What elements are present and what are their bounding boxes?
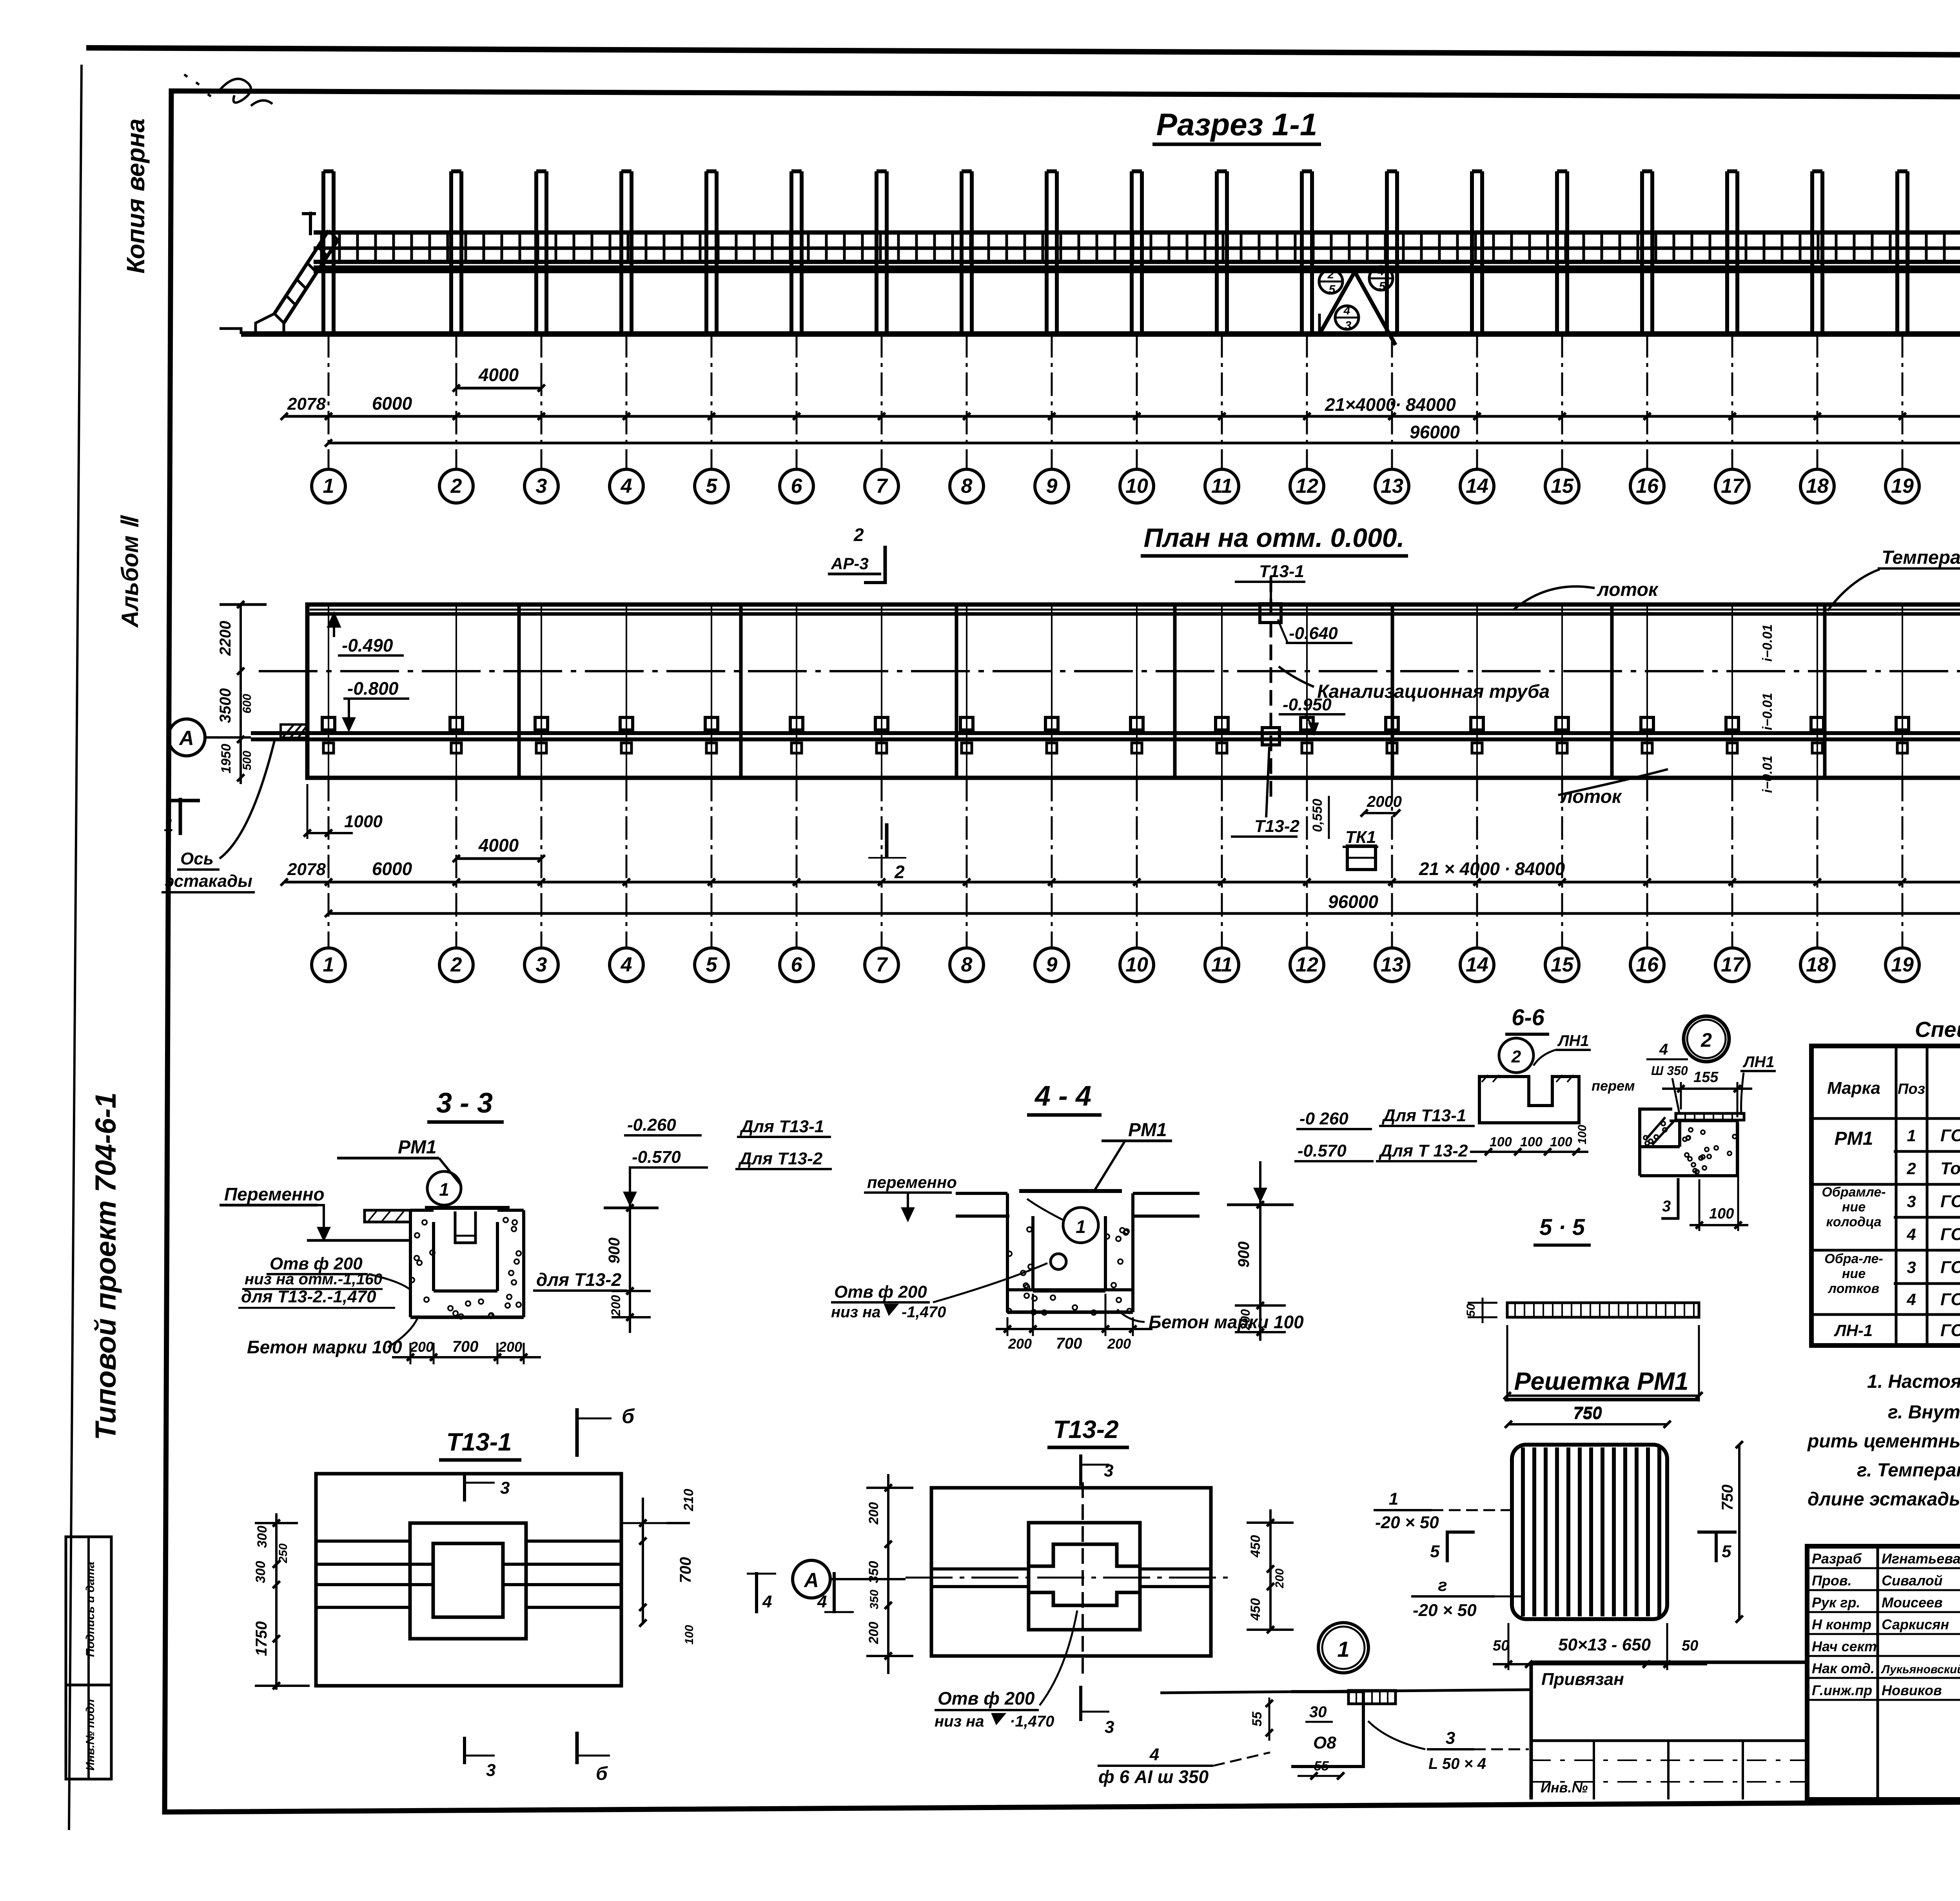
svg-text:5: 5 [706,475,718,497]
svg-text:700: 700 [677,1557,694,1583]
svg-text:96000: 96000 [1328,891,1378,912]
detail 4-4 drain hole [1051,1254,1066,1269]
svg-text:3: 3 [486,1761,495,1780]
svg-text:17: 17 [1721,953,1744,976]
svg-text:Для Т13-2: Для Т13-2 [738,1149,823,1168]
svg-text:4: 4 [621,953,632,976]
svg-text:Т13-1: Т13-1 [1259,562,1304,581]
section mark 4 left [755,1572,758,1613]
elevation dim 4000 axes 2-3 [456,387,541,390]
svg-text:18: 18 [1806,953,1829,976]
svg-text:4: 4 [621,475,632,497]
svg-text:Привязан: Привязан [1541,1670,1624,1689]
detail T13-2 well box [1029,1523,1140,1630]
svg-text:350: 350 [866,1561,881,1583]
svg-text:16: 16 [1636,475,1659,497]
svg-text:10: 10 [1125,475,1148,497]
brace label circle 4/5 [1369,267,1393,290]
svg-text:лотков: лотков [1828,1281,1879,1296]
detail 6-6 position circle 2 [1499,1038,1534,1073]
svg-text:низ на отм.-1,160: низ на отм.-1,160 [245,1271,382,1288]
detail T13-2 stepped inner box [1029,1544,1140,1605]
svg-text:3500: 3500 [217,688,234,723]
svg-text:Моисеев: Моисеев [1882,1594,1943,1610]
svg-text:эстакады: эстакады [165,872,252,891]
svg-text:50×13 - 650: 50×13 - 650 [1558,1635,1651,1654]
elevation columns (24) [321,171,325,334]
svg-text:переменно: переменно [867,1173,957,1191]
grating section mark 5 left [1446,1531,1449,1562]
position circle 2 (corner) [1684,1016,1729,1062]
svg-text:2000: 2000 [1367,793,1402,810]
svg-text:ние: ние [1842,1266,1866,1281]
svg-text:Т13-2: Т13-2 [1254,817,1299,836]
svg-text:Инв.№: Инв.№ [1541,1779,1588,1796]
svg-text:5: 5 [1722,1542,1731,1561]
grating dim 750 top [1508,1423,1667,1425]
detail 6-6 channel section [1479,1077,1579,1123]
svg-text:200: 200 [1273,1569,1286,1589]
svg-text:Копия верна: Копия верна [122,118,150,274]
svg-text:для Т13-2: для Т13-2 [536,1269,622,1290]
svg-text:3: 3 [1907,1258,1916,1276]
svg-text:900: 900 [1235,1242,1252,1268]
brace label circle 2/5 [1319,270,1343,293]
svg-text:200: 200 [609,1295,623,1316]
left stair foot block [256,314,284,334]
svg-text:г. Температурные швы устра: г. Температурные швы устраивать через 10… [1857,1460,1960,1481]
svg-text:Игнатьева: Игнатьева [1882,1551,1960,1567]
plan overall dimension line 96000 [328,912,1960,915]
detail 3-3 ground line [307,1239,410,1242]
svg-text:0,550: 0,550 [1310,799,1325,832]
svg-text:21×4000∙ 84000: 21×4000∙ 84000 [1325,394,1456,415]
svg-text:8: 8 [961,953,973,976]
svg-text:50: 50 [1682,1638,1698,1654]
detail T13-1 outer rectangle [316,1474,621,1686]
svg-text:б: б [596,1763,608,1784]
title block left extension [1531,1661,1807,1664]
svg-text:700: 700 [1056,1335,1082,1352]
svg-text:155: 155 [1693,1069,1719,1086]
svg-text:14: 14 [1466,475,1488,497]
plan centre double line [251,731,1960,735]
detail 4-4 concrete speckles [1007,1227,1132,1315]
level label -0.490 left [328,614,339,637]
svg-text:2: 2 [853,525,864,545]
plan main dimension line [284,881,1960,884]
svg-text:ТК1: ТК1 [1345,828,1376,847]
detail 4-4 grate bar [1019,1189,1122,1193]
svg-text:Отв ф 200: Отв ф 200 [834,1282,927,1302]
svg-text:2: 2 [1327,268,1334,281]
svg-text:-20 × 50: -20 × 50 [1413,1601,1477,1620]
svg-text:200: 200 [866,1622,881,1645]
svg-text:1950: 1950 [219,744,234,773]
dim 0.550 TK1 vertical [1328,796,1330,839]
detail T13-1 section mark 3 bottom [463,1737,466,1764]
section mark 2 bottom [885,823,889,859]
svg-text:50: 50 [1493,1638,1509,1654]
plan band outline [307,605,1960,778]
svg-text:низ на: низ на [831,1304,881,1321]
detail T13-2 channel lines [931,1567,1029,1571]
svg-text:ф 6 АІ ш 350: ф 6 АІ ш 350 [1098,1767,1209,1787]
svg-text:12: 12 [1296,475,1318,497]
svg-text:-0.490: -0.490 [342,635,393,655]
svg-text:6000: 6000 [372,859,412,879]
elevation deck band [314,231,1960,235]
plan footing squares [322,717,335,730]
svg-text:3 - 3: 3 - 3 [436,1088,493,1119]
svg-text:19: 19 [1891,475,1914,497]
svg-text:3: 3 [1104,1461,1113,1480]
svg-text:Новиков: Новиков [1882,1682,1942,1698]
svg-text:Канализационная труба: Канализационная труба [1317,681,1550,702]
svg-text:4: 4 [1343,304,1350,317]
svg-text:7: 7 [876,475,888,497]
brace label circle 4/3 [1335,306,1359,329]
svg-text:210: 210 [681,1489,696,1512]
svg-text:для Т13-2.-1,470: для Т13-2.-1,470 [241,1287,376,1306]
svg-text:9: 9 [1046,953,1058,976]
svg-text:4000: 4000 [478,365,519,385]
svg-text:Лукьяновский: Лукьяновский [1881,1663,1960,1676]
detail 6-6 top hatch [1482,1075,1573,1082]
detail T13-1 well box [410,1523,526,1639]
svg-text:2200: 2200 [217,621,234,656]
svg-text:3: 3 [1345,319,1352,332]
svg-text:3: 3 [1446,1729,1455,1748]
svg-text:7: 7 [876,953,888,976]
svg-text:Разрез 1-1: Разрез 1-1 [1156,107,1318,142]
section mark б top [575,1408,579,1457]
node detail grate bar [1348,1690,1396,1704]
svg-text:18: 18 [1806,475,1829,497]
detail 3-3 right dim chain 900/200 [629,1196,631,1333]
svg-text:АР-3: АР-3 [831,554,869,573]
position circle 1 (grating) [1318,1623,1368,1673]
svg-text:Для Т13-1: Для Т13-1 [739,1117,824,1136]
svg-text:Поз: Поз [1898,1081,1925,1097]
svg-text:б: б [622,1405,635,1428]
plan axis verticals across band [328,605,1960,778]
svg-text:лоток: лоток [1560,786,1622,807]
svg-text:i−0.01: i−0.01 [1760,755,1775,793]
svg-text:Т13-1: Т13-1 [446,1428,512,1456]
node detail dim 55 bottom [1298,1775,1341,1777]
svg-text:1: 1 [1076,1216,1086,1237]
section mark 4 right [833,1572,836,1613]
svg-text:Типовой проект 704-6-1: Типовой проект 704-6-1 [89,1092,122,1440]
plan left dimension chain [240,605,242,784]
svg-text:ние: ние [1842,1200,1866,1215]
svg-text:Бетон марки 100: Бетон марки 100 [1149,1312,1304,1332]
left access stair [274,231,328,314]
svg-text:1: 1 [1389,1489,1398,1509]
svg-text:План на отм. 0.000.: План на отм. 0.000. [1143,523,1404,553]
svg-text:200: 200 [410,1339,434,1355]
svg-text:16: 16 [1636,953,1659,976]
svg-text:ГОСТ 2590-71*: ГОСТ 2590-71* [1940,1225,1960,1244]
svg-text:500: 500 [241,751,254,770]
detail 5-5 bar [1507,1303,1699,1317]
svg-text:30: 30 [1309,1703,1327,1721]
svg-text:3: 3 [1105,1718,1114,1737]
svg-text:А: А [178,727,194,750]
svg-text:4: 4 [817,1592,827,1611]
grating bottom dims [1493,1663,1707,1665]
svg-text:21 × 4000 ∙ 84000: 21 × 4000 ∙ 84000 [1419,859,1565,879]
svg-text:-0 260: -0 260 [1299,1109,1348,1128]
corner unit grate bar [1676,1113,1744,1120]
svg-text:ГОСТ 8706-58: ГОСТ 8706-58 [1940,1321,1960,1340]
svg-text:450: 450 [1248,1598,1263,1621]
svg-text:4: 4 [762,1592,772,1611]
svg-text:1000: 1000 [344,812,383,831]
svg-text:i−0.01: i−0.01 [1760,693,1775,730]
svg-text:Т13-2: Т13-2 [1053,1415,1118,1443]
svg-text:1: 1 [439,1179,449,1200]
svg-text:10: 10 [1125,953,1148,976]
svg-text:4: 4 [1659,1041,1668,1058]
svg-text:17: 17 [1721,475,1744,497]
svg-text:3: 3 [536,953,547,976]
svg-text:2078: 2078 [287,394,326,414]
detail T13-2 pipe dashed vertical [1082,1482,1084,1674]
detail 6-6 dims 100/100/100 [1470,1151,1588,1153]
svg-text:9: 9 [1046,475,1058,497]
plan dim 4000 axes 2-3 [456,857,541,860]
manhole T13-2 on plan [1262,728,1279,745]
svg-text:Подпись и дата: Подпись и дата [84,1561,97,1657]
svg-text:Температурный шов: Температурный шов [1882,547,1960,568]
svg-text:Ось: Ось [180,849,214,868]
svg-text:РМ1: РМ1 [398,1137,437,1158]
svg-text:Переменно: Переменно [224,1184,325,1204]
svg-text:i−0.01: i−0.01 [1760,624,1775,661]
svg-text:13: 13 [1381,475,1403,497]
detail T13-2 section mark 3 top [1079,1454,1082,1486]
svg-text:Решетка РМ1: Решетка РМ1 [1514,1367,1688,1395]
svg-text:-1,470: -1,470 [902,1304,946,1321]
elevation axis lines [328,334,330,469]
svg-text:ГОСТ 8509-72: ГОСТ 8509-72 [1940,1258,1960,1277]
elevation main dimension line [284,415,1960,418]
detail T13-2 right dim chain [1269,1509,1272,1631]
ground step left [220,329,241,334]
svg-text:-0.570: -0.570 [632,1147,681,1167]
detail 3-3 centre slot [455,1211,475,1243]
detail 5-5 thickness dim [1482,1298,1484,1323]
plan dim 1000 left [307,832,353,834]
svg-text:200: 200 [1107,1336,1131,1352]
svg-text:5: 5 [706,953,718,976]
svg-text:Ш 350: Ш 350 [1651,1064,1688,1078]
axis A circle (T13-2) [793,1560,830,1598]
detail T13-1 left dim chain [275,1513,278,1690]
svg-text:1: 1 [323,953,334,976]
svg-text:900: 900 [606,1238,623,1264]
svg-text:250: 250 [277,1543,290,1563]
sheet outer top border [86,48,1960,57]
svg-text:5: 5 [1329,283,1336,296]
corner unit detail [1640,1109,1737,1176]
svg-text:1750: 1750 [253,1621,270,1656]
svg-text:15: 15 [1551,475,1574,497]
svg-text:100: 100 [1550,1135,1572,1149]
svg-text:100: 100 [1520,1135,1543,1149]
svg-text:3: 3 [536,475,547,497]
corner unit hatch [1646,1117,1674,1145]
svg-text:1: 1 [1907,1126,1916,1145]
svg-text:11: 11 [1211,953,1232,976]
svg-text:Н контр: Н контр [1812,1616,1871,1632]
sheet outer left border [69,65,82,1830]
svg-text:Спецификация элементов, замарк: Спецификация элементов, замаркированных … [1915,1017,1960,1042]
svg-text:Рук гр.: Рук гр. [1812,1594,1860,1610]
svg-text:Обра-ле-: Обра-ле- [1824,1251,1883,1266]
svg-text:ЛН-1: ЛН-1 [1834,1321,1873,1340]
detail T13-1 right dim chain [642,1498,644,1623]
elevation overall dimension line 96000 [328,442,1960,445]
svg-text:Для Т13-1: Для Т13-1 [1381,1106,1466,1125]
svg-text:длине эстакады.: длине эстакады. [1808,1489,1960,1510]
detail 3-3 concrete speckles [410,1218,521,1319]
svg-text:перем: перем [1592,1078,1635,1094]
svg-text:А: А [803,1569,819,1592]
detail 4-4 position circle 1 [1063,1207,1098,1243]
detail T13-2 left dim chain [887,1474,889,1674]
left stair mast [309,212,312,235]
svg-text:Альбом Ⅱ: Альбом Ⅱ [117,515,143,628]
svg-text:2: 2 [894,862,905,882]
svg-text:-0.800: -0.800 [347,678,399,699]
svg-text:200: 200 [498,1339,522,1355]
grating dim 750 right [1738,1445,1740,1619]
svg-text:13: 13 [1381,953,1403,976]
svg-text:96000: 96000 [1410,422,1460,442]
detail 4-4 bottom dims 200/700/200 [996,1328,1152,1330]
svg-text:100: 100 [1709,1206,1734,1222]
margin stamp boxes [66,1537,111,1779]
detail T13-2 axis dash-dot [906,1577,1235,1579]
svg-text:рить цементным раствором с: рить цементным раствором с железнением. [1807,1431,1960,1452]
svg-text:14: 14 [1466,953,1488,976]
svg-text:-0.640: -0.640 [1289,624,1338,643]
specification table grid [1811,1046,1960,1345]
detail 4-4 section [956,1192,1007,1195]
rail axis dash-dot line [259,670,1960,672]
svg-text:700: 700 [452,1338,479,1355]
corner unit dim 100 [1690,1224,1748,1226]
svg-text:-0.570: -0.570 [1298,1141,1347,1160]
svg-text:ЛН1: ЛН1 [1742,1053,1775,1071]
svg-text:300: 300 [255,1526,270,1548]
svg-text:РМ1: РМ1 [1128,1120,1167,1140]
svg-text:8: 8 [961,475,973,497]
svg-text:Разраб: Разраб [1812,1551,1862,1567]
svg-text:РМ1: РМ1 [1835,1128,1873,1149]
svg-text:-0.260: -0.260 [627,1115,676,1135]
detail T13-1 channel lines [316,1540,410,1543]
svg-text:4: 4 [1149,1745,1159,1764]
deck band grid verticals [321,232,1960,262]
svg-text:Г.инж.пр: Г.инж.пр [1812,1682,1872,1698]
svg-text:100: 100 [1576,1125,1589,1144]
svg-text:2078: 2078 [287,860,326,879]
svg-text:19: 19 [1891,953,1914,976]
svg-text:1: 1 [164,816,173,835]
svg-text:15: 15 [1551,953,1574,976]
svg-text:-20 × 50: -20 × 50 [1375,1513,1439,1532]
svg-text:3: 3 [500,1478,510,1498]
svg-text:Сивалой: Сивалой [1882,1572,1943,1589]
svg-text:Нач сект: Нач сект [1812,1638,1877,1654]
svg-text:Марка: Марка [1827,1079,1880,1098]
svg-text:5: 5 [1430,1542,1440,1561]
detail T13-2 section mark 3 bottom [1079,1686,1082,1721]
svg-text:2: 2 [1700,1029,1712,1051]
svg-text:колодца: колодца [1826,1215,1882,1229]
svg-text:2: 2 [1906,1159,1916,1178]
svg-text:Нак отд.: Нак отд. [1812,1660,1875,1676]
title block outline [1807,1546,1960,1799]
svg-text:55: 55 [1314,1759,1329,1774]
manhole T13-1 on plan [1260,604,1281,623]
svg-text:4: 4 [1906,1290,1916,1309]
brace detail between axes 12-13 [1319,272,1396,345]
margin signature scribble [184,74,272,106]
svg-text:О8: О8 [1313,1733,1336,1752]
axis A circle [168,719,205,756]
svg-text:низ на: низ на [935,1713,984,1730]
detail 3-3 position circle 1 [427,1171,461,1205]
svg-text:200: 200 [1008,1336,1032,1352]
section mark б bottom [575,1732,579,1764]
svg-text:11: 11 [1211,475,1232,497]
canalisation pipe dashed line [1270,576,1272,800]
svg-text:4000: 4000 [478,835,519,855]
plan left buffer stop [281,724,307,738]
svg-text:ГОСТ 103-76*: ГОСТ 103-76* [1940,1126,1960,1145]
svg-text:1: 1 [1337,1637,1349,1661]
grating section mark 5 right (T5) [1715,1531,1718,1562]
section mark 2 top (AP-3) [884,546,887,584]
svg-text:750: 750 [1573,1403,1602,1422]
svg-text:г: г [1438,1576,1447,1595]
svg-text:4: 4 [1377,265,1385,278]
elevation ground line [241,331,1960,337]
manhole TK1 on plan [1347,846,1376,870]
detail T13-1 section mark 3 top [463,1474,466,1502]
svg-text:350: 350 [868,1590,881,1609]
title block signature table [1805,1546,1809,1799]
svg-text:50: 50 [1465,1304,1477,1317]
svg-text:2: 2 [450,475,462,497]
svg-text:100: 100 [683,1625,696,1645]
svg-text:600: 600 [241,694,254,714]
plan axis lines [328,778,330,948]
svg-text:6: 6 [791,953,803,976]
svg-text:г. Внутренние поверхности ко: г. Внутренние поверхности колодцев Т1, Т… [1888,1402,1960,1423]
svg-text:6000: 6000 [372,393,412,414]
svg-text:лоток: лоток [1597,579,1659,600]
svg-text:Обрамле-: Обрамле- [1822,1185,1886,1200]
svg-text:55: 55 [1250,1711,1265,1727]
detail T13-2 outer rectangle [931,1488,1211,1656]
svg-text:300: 300 [253,1561,268,1583]
